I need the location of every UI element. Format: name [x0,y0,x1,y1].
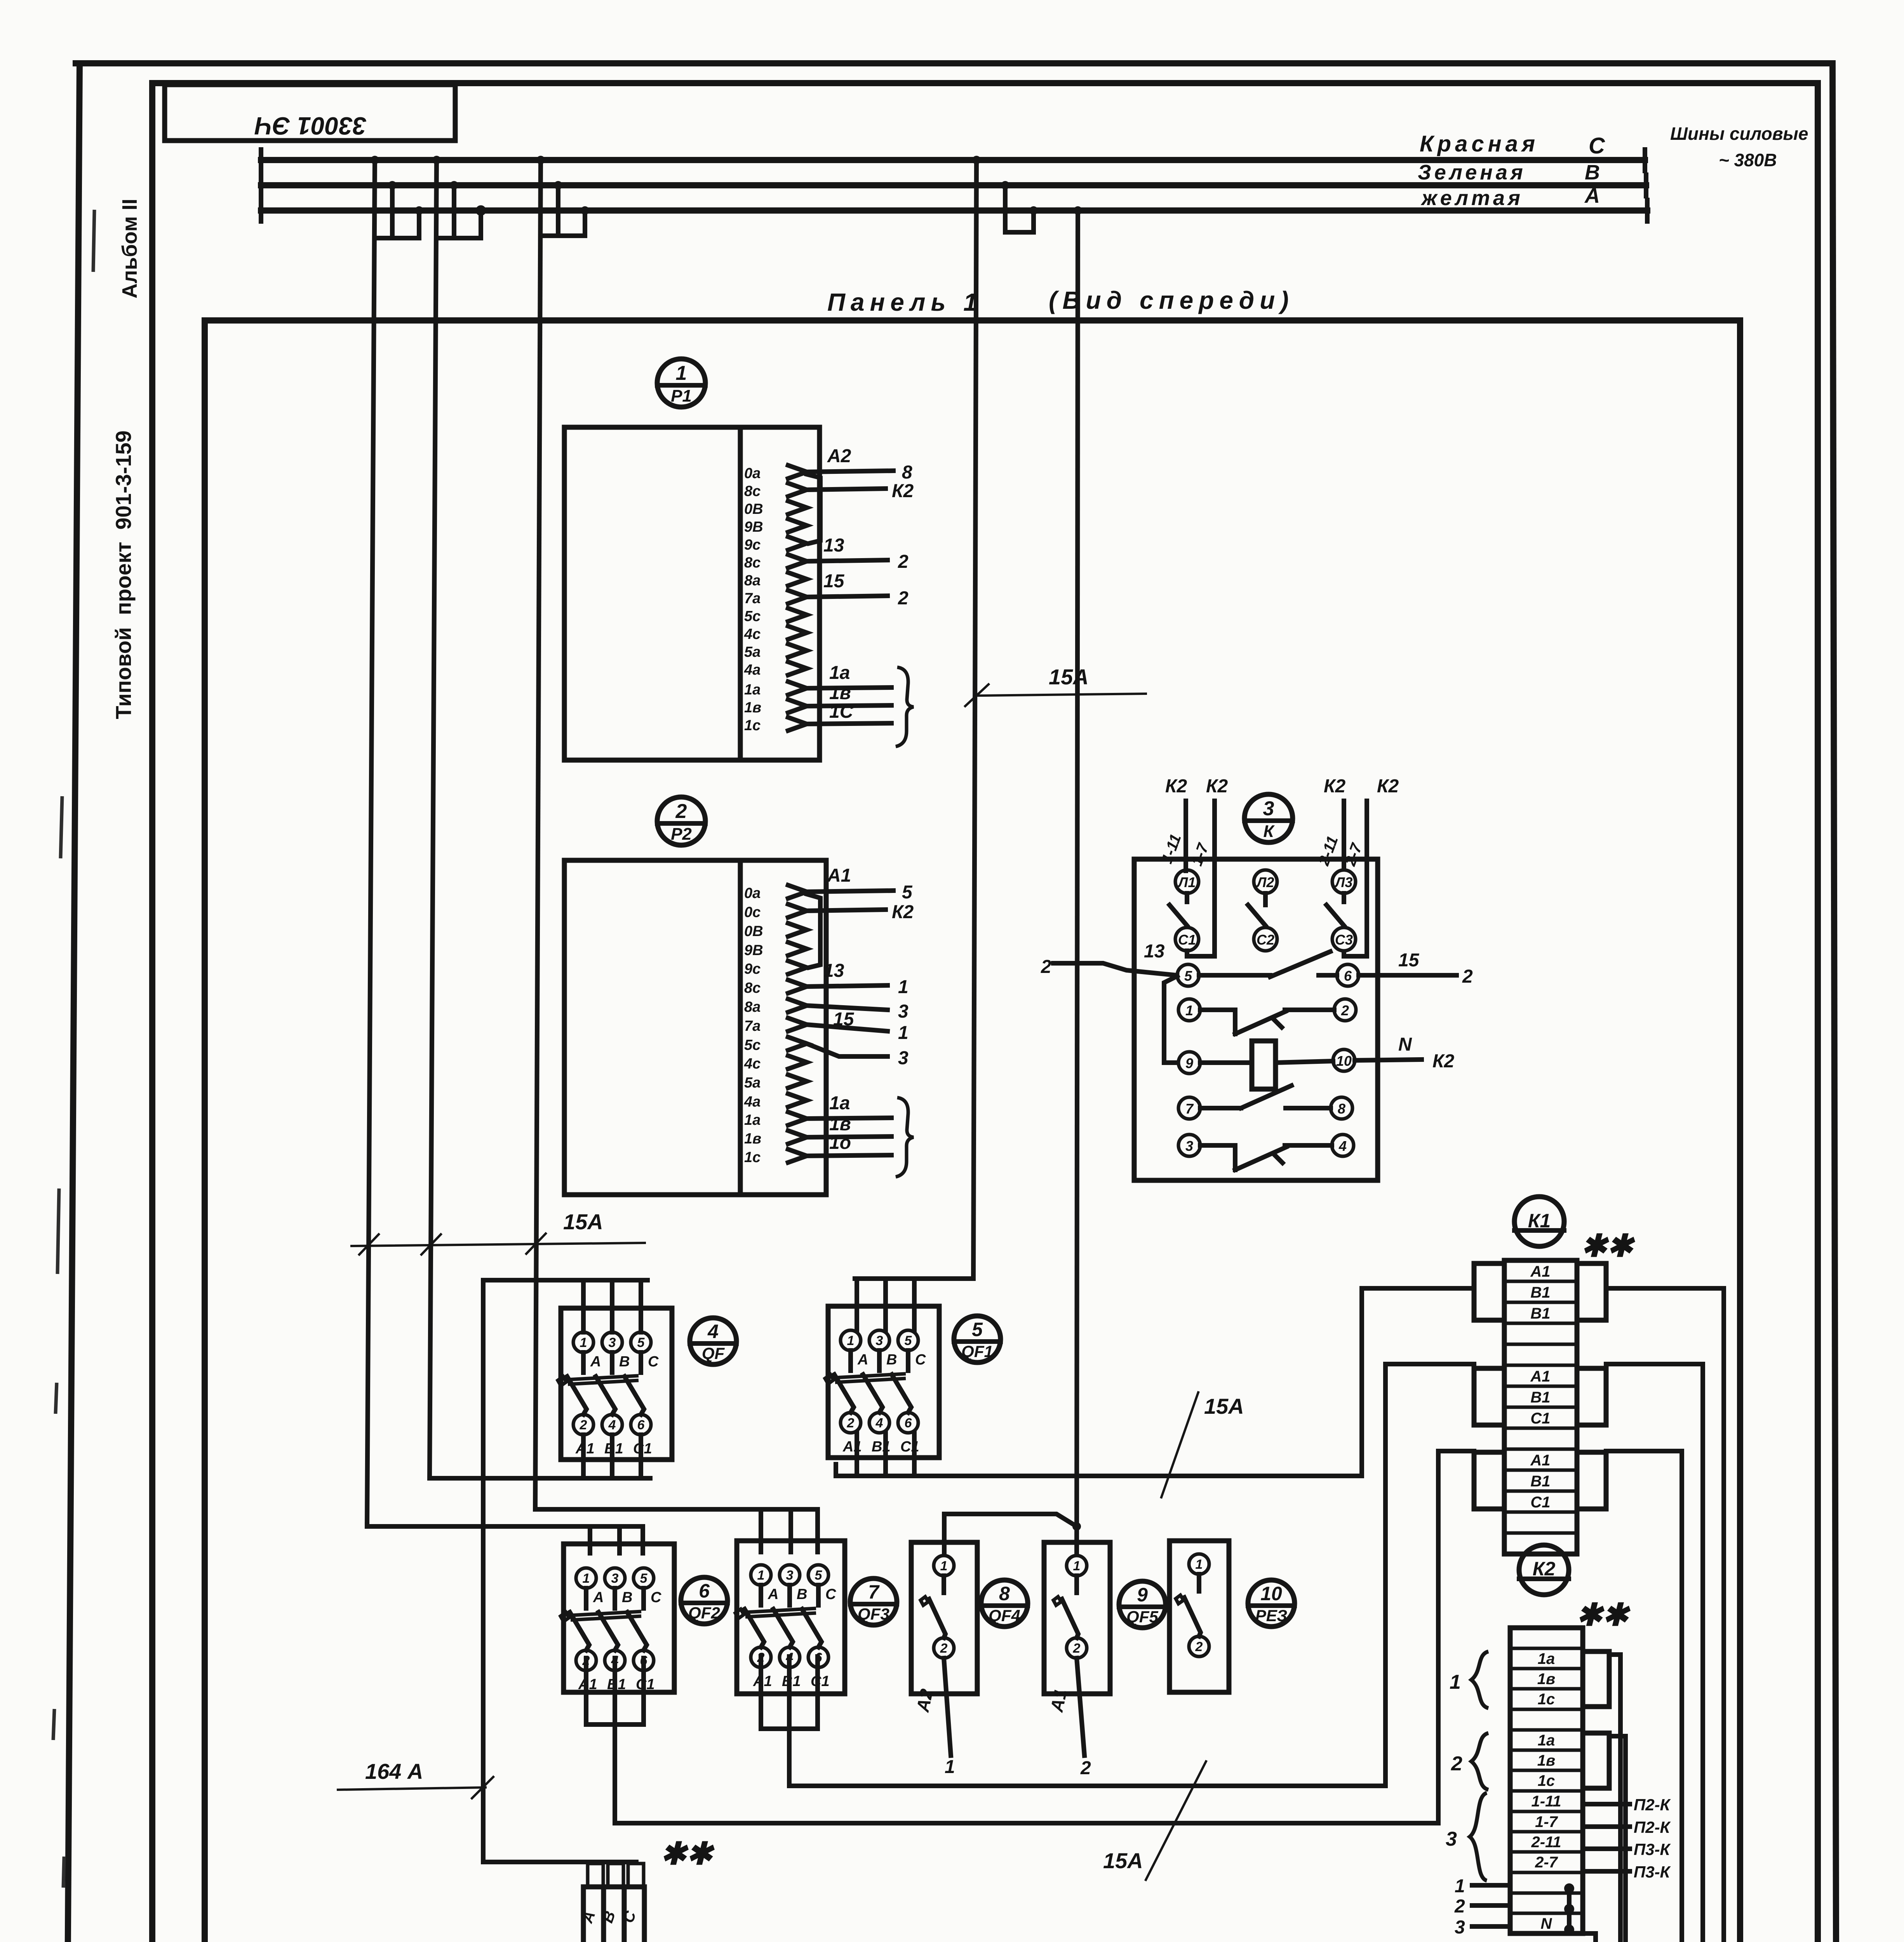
svg-text:В1: В1 [1530,1284,1550,1301]
svg-text:8: 8 [1338,1101,1345,1117]
svg-text:8а: 8а [744,573,761,589]
svg-text:2-11: 2-11 [1531,1834,1561,1851]
svg-text:К2: К2 [1533,1558,1556,1580]
svg-text:П2-К: П2-К [1634,1796,1671,1814]
power bus B (зеленая) [261,175,1646,196]
wire branch to QF4 pole 1 and QF5 pole 1 [944,1514,1081,1554]
svg-text:2: 2 [898,588,908,609]
reference 164 А [338,1759,493,1798]
svg-text:Типовой проект 901-3-159: Типовой проект 901-3-159 [111,430,136,719]
svg-text:(Вид спереди): (Вид спереди) [1049,286,1294,314]
wire: phase feeder V1 from bus C to QF2 feed rail [367,160,375,1526]
svg-text:1в: 1в [744,700,761,716]
power bus A (желтая) [261,200,1647,221]
P1 pin 8с [744,555,807,571]
wire N cell to null bus [1583,1933,1600,1942]
breaker РЕЗ (1-pole reserve) [1170,1541,1229,1692]
svg-text:Р2: Р2 [671,825,692,844]
svg-text:5с: 5с [744,608,761,625]
contactor aux NC contact 1-2 [1178,999,1356,1034]
wire node 2 to contact 5 (label 13) [1041,941,1177,977]
svg-text:А1: А1 [1530,1368,1550,1385]
svg-text:6: 6 [699,1580,710,1602]
svg-text:QF5: QF5 [1126,1608,1158,1626]
svg-text:15А: 15А [1049,665,1089,689]
svg-text:6: 6 [905,1416,912,1430]
wire: phase feeder V3 from bus C to QF3/QF4/QF5 rail [535,160,541,1509]
wire K1 group1 right to H2 drop [1606,1288,1735,1942]
svg-text:1в: 1в [744,1131,761,1147]
P1 pin 8а [744,573,807,589]
id circle 10/РЕЗ [1248,1580,1295,1627]
wire U-loop under QF3 (А1-С1) [761,1657,818,1729]
svg-text:1в: 1в [829,1114,851,1135]
svg-text:А: А [1584,184,1600,207]
P2 pin 0с [744,904,807,921]
svg-text:5: 5 [902,882,913,903]
svg-text:1: 1 [1450,1671,1461,1693]
wire contact 6 to node 2 (label 15) [1359,950,1473,987]
svg-text:2: 2 [675,800,687,823]
svg-text:15: 15 [1398,950,1420,971]
svg-text:С1: С1 [1530,1410,1550,1427]
wire К2 (1-11) into contactor [1158,776,1187,871]
svg-text:3: 3 [1185,1138,1193,1154]
svg-text:7а: 7а [744,1018,761,1034]
svg-text:1а: 1а [829,663,850,683]
svg-text:В: В [619,1354,630,1370]
svg-text:К2: К2 [1165,776,1187,797]
wires P2 1а 1в 1с with brace [807,1093,914,1177]
svg-text:9В: 9В [744,519,763,535]
K1 right tab group 2 [1577,1368,1606,1425]
svg-text:1: 1 [1185,1002,1193,1018]
svg-text:5с: 5с [744,1037,761,1053]
svg-text:2: 2 [580,1418,587,1432]
svg-text:1в: 1в [829,683,851,703]
panel 1 enclosure outline [205,320,1740,1942]
svg-text:С: С [915,1352,926,1368]
svg-text:6: 6 [637,1418,645,1432]
svg-text:2: 2 [1080,1758,1091,1778]
K2 node stubs 1 2 3 [1454,1876,1510,1938]
wire link 5-1-9 (left column inside K) [1164,976,1178,1063]
wire P2 7а to node 1 (label 15) [807,1009,908,1043]
device P1 outline [564,427,820,760]
svg-text:В1: В1 [1530,1473,1550,1490]
svg-text:5а: 5а [744,1075,761,1091]
svg-text:В1: В1 [1530,1389,1550,1406]
svg-text:1-7: 1-7 [1535,1813,1558,1831]
svg-text:К2: К2 [892,481,914,501]
wire К2 (2-11) into contactor [1315,776,1346,868]
svg-text:15А: 15А [1204,1394,1244,1418]
contactor aux NC contact 3-4 [1178,1135,1354,1170]
svg-text:8: 8 [999,1583,1010,1604]
svg-text:1: 1 [898,1023,908,1043]
P2 pin 5а [744,1075,807,1091]
svg-text:1: 1 [757,1568,765,1583]
svg-text:N: N [1398,1034,1412,1055]
K2 wires П2-К П2-К П3-К П3-К [1583,1796,1671,1881]
svg-text:2-7: 2-7 [1535,1854,1558,1871]
top-left stamp box with inverted number 33001 ЭЧ [165,85,455,141]
svg-text:QF: QF [702,1344,725,1363]
wire P2 8а to node 3 [807,1001,908,1022]
P2 pin 1в [744,1131,807,1147]
K1 left tab group 2 [1474,1368,1504,1425]
svg-text:В: В [1585,161,1600,184]
svg-text:К2: К2 [1206,776,1228,797]
bus tap group 4 (right, to QF1 / QF4 QF5) [972,156,1082,232]
svg-text:0а: 0а [744,885,761,901]
svg-text:С2: С2 [1257,932,1274,948]
breaker QF3 (3-pole) [735,1541,845,1694]
wire P1 8с to node К2 [807,481,914,501]
svg-text:3: 3 [876,1333,883,1348]
wire K1 group2 right to H4 drop [1606,1364,1703,1942]
svg-text:8: 8 [902,462,912,483]
svg-text:9: 9 [1185,1055,1193,1071]
svg-text:7а: 7а [744,590,761,607]
wire stub below Л2 [1263,893,1268,905]
id circle 9/QF5 [1119,1581,1166,1628]
P2 pin 8а [744,999,807,1015]
P1 pin 1а [744,682,807,698]
svg-text:1с: 1с [744,1149,761,1166]
P1 pin 7а [744,590,807,607]
svg-text:С: С [1589,133,1605,158]
svg-text:3: 3 [609,1335,616,1350]
svg-text:1: 1 [580,1335,587,1350]
svg-text:1в: 1в [1537,1752,1555,1769]
contactor K (id circle 3/К) [1244,794,1293,842]
svg-text:0а: 0а [744,465,761,482]
svg-text:1в: 1в [1537,1671,1555,1688]
svg-text:2: 2 [1462,966,1473,987]
svg-text:1а: 1а [829,1093,850,1114]
svg-text:Шины силовые: Шины силовые [1670,124,1808,144]
svg-text:Л2: Л2 [1256,874,1274,890]
svg-text:С3: С3 [1335,932,1353,948]
svg-text:4а: 4а [744,662,761,678]
id circle 4/QF [690,1318,736,1364]
wire K1 group3 left riser from QF2 [1438,1451,1474,1823]
wire K1 group2 left riser from QF3 [1385,1364,1474,1786]
svg-text:К: К [1263,822,1275,841]
wires P1 1а 1в 1с with brace [807,663,914,747]
contactor main pole Л1-С1 [1170,870,1199,951]
svg-text:5: 5 [972,1319,983,1340]
svg-text:5: 5 [640,1571,648,1586]
breaker QF4 (1-pole) [911,1542,977,1694]
svg-text:А: А [857,1352,868,1368]
svg-text:2: 2 [847,1416,855,1430]
svg-text:9с: 9с [744,961,761,977]
svg-text:1: 1 [676,362,687,385]
reference 15A with slash over the two rails [1103,1761,1206,1880]
breaker QF5 (1-pole) [1044,1542,1110,1694]
P1 pin 4с [744,626,807,642]
svg-text:Альбом II: Альбом II [118,198,141,298]
wire P1 7а to node 2 (label 15) [807,571,908,609]
reference line 15A (left feeders) [352,1209,645,1255]
svg-text:РЕЗ: РЕЗ [1255,1606,1287,1625]
wire K2 group1 tab down to К1 cable circle [1609,1655,1620,1942]
svg-text:С1: С1 [1530,1494,1550,1511]
svg-text:В: В [797,1586,807,1603]
K2 jumper dots column [1564,1883,1574,1935]
svg-text:1: 1 [1455,1876,1465,1897]
wire P2 5с to node 3 [807,1044,908,1068]
svg-text:1с: 1с [1538,1772,1555,1789]
svg-text:5а: 5а [744,644,761,660]
svg-text:1а: 1а [744,1112,761,1128]
svg-text:В: В [886,1352,897,1368]
svg-text:8с: 8с [744,483,761,499]
reference 15A on QF1 lower rail [1161,1392,1244,1497]
svg-text:К2: К2 [892,902,914,922]
svg-text:2: 2 [1073,1641,1081,1656]
svg-text:А: А [590,1354,601,1370]
svg-text:N: N [1541,1915,1552,1932]
svg-text:С: С [648,1354,659,1370]
P1 pin 8с [744,483,807,499]
P2 pin 0а [744,885,807,901]
svg-text:П3-К: П3-К [1634,1840,1671,1858]
wire hook below С3 [1344,952,1356,956]
svg-text:Панель 1: Панель 1 [827,288,983,316]
svg-text:1а: 1а [1538,1650,1555,1667]
svg-text:3: 3 [786,1568,794,1583]
wire К2 (2-7) into contactor [1342,776,1399,956]
wire rail feeding QF1 poles from bus C feeder [855,1279,973,1330]
svg-text:4: 4 [608,1418,616,1432]
wire P1 0а to node 8 (label А2) [807,446,912,483]
panel device P1 (id circle 1/Р1) [657,359,705,407]
svg-text:К2: К2 [1377,776,1399,797]
wire rail feeding QF2 poles (from feeder V1) [367,1526,643,1553]
bus tap group 3 (junctions + crossover jog) [536,156,589,236]
wire feeder V1 bottom rail to ABC block riser [365,1524,369,1526]
svg-text:15: 15 [833,1009,855,1030]
svg-text:10: 10 [1336,1053,1352,1069]
svg-text:6: 6 [1344,968,1352,984]
P1 pin 0а [744,465,807,482]
wire rail feeding QF poles (from V-feeder) [483,1280,647,1332]
svg-text:9с: 9с [744,537,761,553]
svg-text:1о: 1о [829,1133,851,1153]
svg-text:0В: 0В [744,501,763,517]
K2 right tab group 1 [1583,1651,1609,1707]
svg-text:2: 2 [1195,1639,1203,1654]
svg-text:1: 1 [847,1333,855,1348]
svg-text:4: 4 [875,1416,883,1430]
P1 pin 4а [744,662,807,678]
wire: feeder from bus A to QF4/QF5 [1077,211,1078,1555]
wire К2 (1-7) into contactor [1188,776,1228,956]
P1 pin 9В [744,519,807,535]
breaker QF (3-pole) [558,1308,672,1460]
panel device P2 (id circle 2/Р2) [657,797,705,845]
wire: feeder from bus C to QF1 input rail [973,160,976,1279]
svg-text:1: 1 [945,1757,955,1777]
device P2 outline [564,860,826,1195]
svg-text:4: 4 [707,1321,719,1342]
wire K1 group3 right to H3 drop [1606,1451,1682,1942]
P2 pin 9В [744,942,807,959]
svg-text:3: 3 [898,1048,908,1068]
svg-text:1с: 1с [1538,1691,1555,1708]
svg-text:2: 2 [1041,957,1051,977]
svg-text:1С: 1С [829,701,854,722]
svg-text:2: 2 [1454,1896,1465,1917]
wire QF2 В1 down and right to K1 strip group 3 [615,1658,1438,1823]
P2 pin 1с [744,1149,807,1166]
id circle 6/QF2 [681,1577,727,1624]
svg-text:желтая: желтая [1420,186,1523,210]
wire QF3 В1 down and right to K1 strip group 2 [789,1657,1385,1786]
P2 pin 4а [744,1094,807,1110]
P2 pin 5с [744,1037,807,1053]
svg-text:5: 5 [1184,968,1192,984]
svg-text:3: 3 [1446,1828,1457,1850]
svg-text:А1: А1 [1530,1452,1550,1469]
wire rail from feeder V3 to QF3 poles and QF4/QF5 [535,1509,818,1552]
terminal strip K1 body [1504,1260,1577,1554]
wire K2 group2 tab down to К2 cable circle [1609,1736,1626,1942]
wire QF4 output А2 down to node 1 [912,1658,955,1777]
svg-text:1а: 1а [1538,1732,1555,1749]
svg-text:А: А [768,1586,778,1603]
svg-text:В: В [622,1589,632,1606]
K2 right tab group 2 [1583,1733,1609,1788]
K2 left brace group 2 [1451,1733,1488,1790]
K1 left tab group 3 [1474,1452,1504,1509]
svg-text:9: 9 [1137,1584,1148,1606]
contactor coil 9-10 [1178,1041,1355,1089]
svg-text:33001 ЭЧ: 33001 ЭЧ [254,112,367,140]
svg-text:4с: 4с [744,1056,761,1072]
P2 pin jumper 0а-9с [807,894,820,968]
svg-text:1: 1 [583,1571,590,1586]
svg-text:К2: К2 [1432,1051,1455,1072]
reference line 15A (QF1 feeder) [965,665,1146,706]
svg-text:8с: 8с [744,980,761,996]
svg-text:С1: С1 [1178,932,1196,948]
svg-text:3: 3 [898,1001,908,1022]
svg-text:3: 3 [1455,1917,1465,1938]
svg-text:7: 7 [1185,1101,1194,1117]
contactor main pole Л2-С2 [1248,870,1277,951]
wire P2 8с to node 1 (label 13) [807,961,908,997]
bus title Шины силовые ~380В [1670,124,1808,170]
breaker QF1 (3-pole) [825,1306,939,1458]
wire: phase feeder V2 from bus C to QF lower rail [430,160,437,1478]
svg-text:2: 2 [898,552,908,572]
svg-text:QF1: QF1 [961,1342,993,1361]
breaker QF2 (3-pole) [560,1544,674,1693]
svg-text:К2: К2 [1324,776,1346,797]
contactor aux contact 5-6 [1177,952,1359,986]
P1 pin 5с [744,608,807,625]
svg-text:А: А [593,1589,604,1606]
K1 right tab group 1 [1577,1263,1606,1320]
svg-text:8с: 8с [744,555,761,571]
P1 pin 0В [744,501,807,517]
wire lower rail under QF1 going right to K1 strip [836,1433,1362,1476]
wire P1 8с to node 2 (label 13) [807,535,908,572]
svg-text:П3-К: П3-К [1634,1863,1671,1881]
label Панель 1 (Вид спереди) [827,286,1294,316]
bus tap group 1 (junctions + crossover jog) [371,156,423,238]
svg-text:15А: 15А [563,1209,603,1234]
svg-text:Р1: Р1 [671,386,692,405]
K2 left brace group 1 [1450,1651,1488,1708]
svg-text:5: 5 [815,1568,823,1583]
svg-text:4с: 4с [744,626,761,642]
svg-text:1: 1 [1196,1557,1203,1572]
svg-text:15А: 15А [1103,1848,1143,1873]
wire K1 group1 left to down-feeder [1362,1288,1474,1476]
wire U-loop under QF2 (А1-С1) [586,1658,644,1724]
bus phase labels [1418,131,1605,210]
svg-text:5: 5 [637,1335,645,1350]
svg-text:А1: А1 [1530,1263,1550,1280]
svg-text:0В: 0В [744,923,763,940]
svg-text:П2-К: П2-К [1634,1818,1671,1836]
svg-text:Красная: Красная [1420,131,1539,157]
svg-text:QF4: QF4 [989,1606,1020,1625]
P1 pin 5а [744,644,807,660]
svg-text:2: 2 [940,1641,948,1656]
svg-text:9В: 9В [744,942,763,959]
P2 pin 1а [744,1112,807,1128]
P1 pin jumper 0а-9с [807,474,820,543]
svg-text:4: 4 [1338,1138,1347,1154]
P1 pin 9с [744,537,807,553]
wire QF5 output А1 down to node 2 [1046,1658,1091,1778]
bus tap group 2 (junctions + crossover jog) [432,156,485,238]
svg-text:А1: А1 [827,865,851,886]
P1 pin 1с [744,717,807,734]
svg-text:С: С [825,1586,836,1603]
P2 pin 4с [744,1056,807,1072]
svg-text:3: 3 [611,1571,619,1586]
svg-text:Л3: Л3 [1334,874,1353,890]
scan artifacts along left edge [51,210,94,1942]
terminal strip K2 body [1510,1628,1583,1933]
svg-text:13: 13 [823,961,844,981]
svg-text:1: 1 [940,1559,948,1573]
K1 left tab group 1 [1474,1263,1504,1320]
P1 pin 1в [744,700,807,716]
svg-text:8а: 8а [744,999,761,1015]
wire coil 10 to К2 (label N) [1355,1034,1455,1072]
svg-text:С: С [651,1589,661,1606]
svg-text:Зеленая: Зеленая [1418,161,1526,184]
terminal strip K2 id circle [1519,1545,1631,1632]
K2 left brace group 3 [1446,1793,1487,1881]
svg-text:7: 7 [868,1581,880,1603]
svg-text:13: 13 [823,535,844,556]
wire lower rail under QF (collects 2-4-6) [430,1435,650,1478]
svg-text:15: 15 [823,571,845,592]
svg-text:А2: А2 [827,446,851,466]
svg-text:Л1: Л1 [1177,874,1196,890]
P2 pin 7а [744,1018,807,1034]
contactor K outline [1134,859,1378,1180]
